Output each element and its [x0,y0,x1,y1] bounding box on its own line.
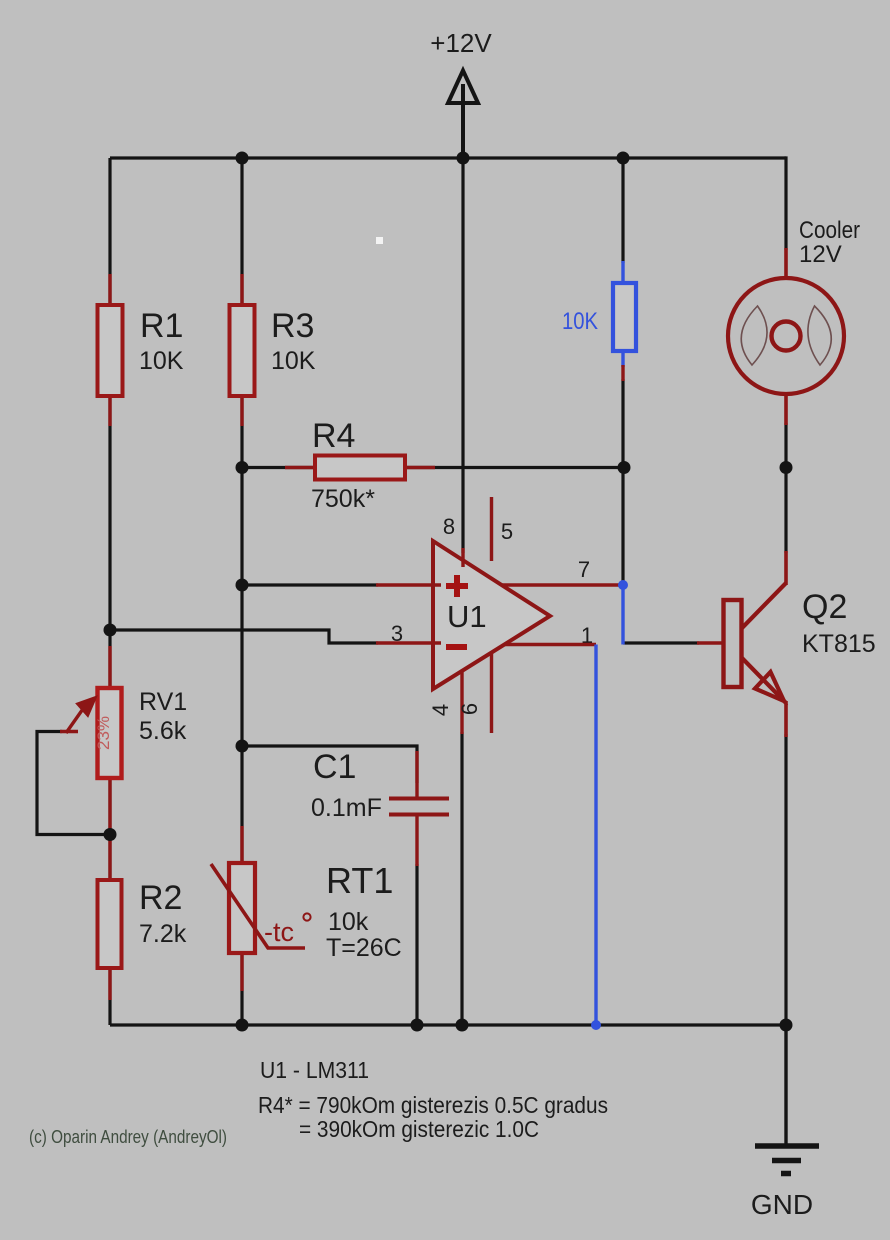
base lead red [697,641,723,645]
lead op-amp pin7 output red [501,583,622,586]
svg-text:RT1: RT1 [326,860,393,901]
motor Cooler 12V [728,217,860,425]
svg-text:6: 6 [457,703,482,715]
wire RV1 wiper loop [37,732,110,835]
wire bottom bus [110,1023,786,1026]
power +12V [430,28,492,158]
plus symbol [446,575,468,597]
wire left column [108,158,111,1025]
svg-text:T=26C: T=26C [326,934,402,962]
svg-text:750k*: 750k* [311,485,375,513]
svg-text:Cooler: Cooler [799,217,860,244]
fan blade right [808,306,831,365]
node bottom bus / GND [780,1019,793,1032]
potentiometer RV1 [60,646,187,834]
svg-text:+12V: +12V [430,28,492,58]
svg-text:GND: GND [751,1189,813,1220]
wire Q2 emitter to bottom bus [784,734,787,1025]
wire right column top (to cooler) [784,156,787,250]
wire C1 top row [242,746,417,783]
wire blue pin1 to bottom bus [594,645,597,1026]
emitter arrow [755,672,784,701]
svg-text:4: 4 [428,704,453,716]
ground GND [751,1025,819,1220]
white speck artifact [376,237,383,244]
lead op-amp pin3 red [376,641,441,644]
minus symbol [446,644,467,650]
svg-text:23%: 23% [94,716,113,750]
base bar [724,600,742,687]
resistor R3 [230,274,316,426]
svg-text:10K: 10K [562,308,598,335]
pin 5 lead [490,497,493,561]
collector vertical red [784,551,788,585]
lead op-amp pin1 red [504,643,596,646]
wire Q2 base row [623,641,699,644]
svg-text:U1: U1 [447,599,487,634]
svg-text:R3: R3 [271,307,314,345]
node bottom bus blue [591,1020,601,1030]
svg-text:5: 5 [501,519,513,544]
svg-text:12V: 12V [799,241,842,268]
op-amp U1 [391,497,593,734]
svg-text:= 390kOm gisterezic 1.0C: = 390kOm gisterezic 1.0C [299,1116,539,1142]
node RV1 bottom [104,828,117,841]
svg-text:(c) Oparin Andrey (AndreyOl): (c) Oparin Andrey (AndreyOl) [29,1126,227,1147]
svg-text:10K: 10K [271,347,316,375]
wire R3/RT1 column [240,158,243,1025]
resistor 10K (blue) [562,261,636,381]
lead op-amp pin2 red [376,583,441,586]
wire blue output to base row [621,585,624,645]
pin 6 lead [490,652,493,733]
node cooler / collector [780,461,793,474]
wire C1 bottom to bus [415,864,418,1025]
svg-text:KT815: KT815 [802,630,876,658]
fan blade left [741,306,767,365]
wire blue-resistor column [621,158,624,263]
wire op-amp pin4 to bottom bus [460,732,463,1025]
svg-text:R4* = 790kOm gisterezis 0.5C g: R4* = 790kOm gisterezis 0.5C gradus [258,1092,608,1118]
resistor R2 [98,836,187,1000]
node R4 right [618,461,631,474]
resistor R1 [98,274,184,426]
capacitor C1 [311,748,449,866]
wire +12V to op-amp pin8 [461,158,464,553]
wire cooler to Q2 collector [784,423,787,553]
node bottom bus / C1 [411,1019,424,1032]
svg-text:-tc: -tc [264,917,294,947]
thermistor RT1 [211,826,402,991]
wire top bus [110,156,786,159]
svg-text:R2: R2 [139,879,182,917]
emitter diagonal [742,658,786,703]
wire op-amp pin3 (-) input from RV1 node [110,630,378,643]
svg-text:10k: 10k [328,908,369,936]
svg-text:U1 - LM311: U1 - LM311 [260,1057,369,1083]
emitter vertical red [784,701,788,737]
svg-text:7.2k: 7.2k [139,920,187,948]
wiper arrow [60,730,78,733]
svg-text:C1: C1 [313,748,356,786]
node bottom bus / pin4 [456,1019,469,1032]
node R4 left [236,461,249,474]
node top bus / R3 [236,152,249,165]
svg-text:RV1: RV1 [139,688,187,716]
wire op-amp pin2 (+) input from R3 node [242,583,378,586]
svg-text:R4: R4 [312,417,355,455]
svg-text:Q2: Q2 [802,588,847,626]
pin 4 lead [460,670,463,734]
svg-text:7: 7 [578,557,590,582]
transistor Q2 [697,551,876,737]
resistor R4 [285,417,435,513]
collector diagonal [742,583,786,628]
node C1 row [236,740,249,753]
node top bus / 10K [617,152,630,165]
svg-text:10K: 10K [139,347,184,375]
svg-text:5.6k: 5.6k [139,717,187,745]
svg-text:8: 8 [443,514,455,539]
node bottom bus / RT1 [236,1019,249,1032]
node R3 / pin2 [236,579,249,592]
wire R4 row [242,466,625,469]
node R1 / pin3 [104,624,117,637]
pin 8 stub [461,548,464,567]
svg-text:R1: R1 [140,307,183,345]
node top bus / +12V [457,152,470,165]
svg-text:0.1mF: 0.1mF [311,794,382,822]
node output pin7 (blue) [618,580,628,590]
